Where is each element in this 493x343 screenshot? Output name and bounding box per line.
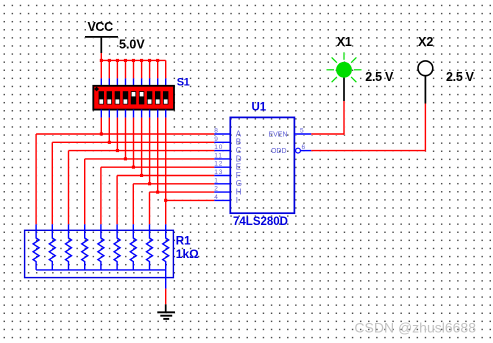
svg-text:13: 13 bbox=[214, 169, 223, 176]
svg-text:2: 2 bbox=[214, 186, 218, 193]
svg-text:2.5 V: 2.5 V bbox=[365, 70, 394, 84]
svg-text:VCC: VCC bbox=[88, 20, 114, 34]
svg-text:X2: X2 bbox=[418, 35, 433, 49]
svg-text:S1: S1 bbox=[177, 76, 190, 88]
svg-text:10: 10 bbox=[214, 144, 223, 151]
svg-text:CSDN @zhusl6688: CSDN @zhusl6688 bbox=[354, 320, 476, 336]
svg-text:6: 6 bbox=[302, 144, 306, 151]
svg-text:2.5 V: 2.5 V bbox=[446, 70, 475, 84]
svg-text:I: I bbox=[236, 196, 238, 205]
svg-text:U1: U1 bbox=[252, 102, 267, 114]
svg-text:R1: R1 bbox=[176, 236, 191, 248]
svg-text:74LS280D: 74LS280D bbox=[233, 216, 288, 228]
svg-text:5: 5 bbox=[300, 127, 304, 134]
svg-text:1: 1 bbox=[214, 177, 218, 184]
svg-text:1kΩ: 1kΩ bbox=[176, 247, 199, 261]
svg-text:9: 9 bbox=[214, 136, 218, 143]
svg-text:8: 8 bbox=[214, 128, 218, 135]
svg-text:5.0V: 5.0V bbox=[119, 37, 145, 51]
svg-text:X1: X1 bbox=[337, 35, 352, 49]
svg-text:ODD: ODD bbox=[271, 148, 287, 155]
svg-text:11: 11 bbox=[214, 152, 222, 159]
svg-text:EVEN: EVEN bbox=[268, 132, 287, 139]
svg-text:4: 4 bbox=[214, 194, 218, 201]
svg-text:12: 12 bbox=[214, 161, 223, 168]
